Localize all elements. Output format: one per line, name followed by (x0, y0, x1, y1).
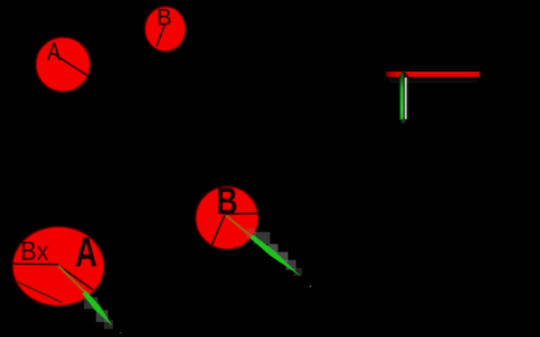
ball B (middle, large) (196, 187, 259, 250)
radius line in ball B (157, 24, 165, 47)
ball Bx/A (bottom-left red ellipse) (12, 226, 104, 306)
green tapered arrow from ball B (250, 235, 301, 277)
diagonal radius line (57, 264, 93, 290)
svg-text:A: A (47, 38, 61, 66)
jpeg halo blocks along arrow of ball Bx (84, 297, 113, 329)
orange arrow segment inside ball B (226, 216, 252, 237)
horizontal radius line (225, 212, 259, 215)
svg-text:A: A (75, 229, 97, 275)
ball B (top red circle) (145, 6, 186, 51)
horizontal radius line (14, 263, 58, 266)
dark taper at arrow bottom (400, 119, 407, 124)
orange arrow segment inside ball (58, 266, 85, 292)
speck near middle arrow tip (309, 285, 311, 287)
jpeg halo blocks along arrow of ball B (246, 228, 302, 276)
svg-text:Bx: Bx (20, 237, 48, 266)
red bar (top-right, racket/velocity bar) (386, 72, 480, 77)
dark notch where arrow meets bar (399, 70, 409, 77)
green vertical arrow (down) (400, 74, 403, 120)
radius line in ball A (53, 54, 88, 77)
smear shadow under bar (389, 77, 477, 83)
speck near bottom arrow tip (120, 332, 122, 334)
diagonal radius line (212, 215, 225, 246)
green tapered arrow from ball (82, 291, 112, 327)
white highlight line of arrow (405, 78, 407, 120)
faint halo around vertical arrow (399, 78, 410, 120)
ball A (top-left red circle) (36, 37, 91, 92)
faint chord line (lower-left) (17, 282, 63, 303)
